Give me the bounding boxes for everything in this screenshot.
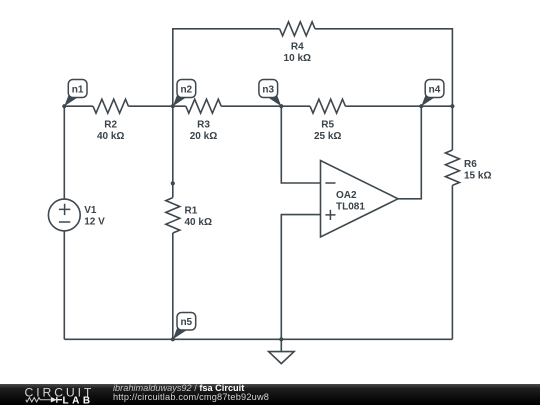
resistor R6 — [445, 150, 459, 185]
op-amp OA2 — [321, 161, 399, 238]
svg-text:15 kΩ: 15 kΩ — [464, 171, 491, 182]
footer text — [113, 384, 244, 394]
svg-text:n1: n1 — [72, 84, 84, 95]
resistor R2 — [93, 99, 128, 113]
voltage source V1 — [48, 199, 80, 231]
svg-text:12 V: 12 V — [84, 217, 105, 228]
node n3 junction — [279, 104, 283, 108]
svg-text:TL081: TL081 — [336, 201, 365, 212]
R1 top junction — [171, 181, 175, 185]
wire: V1 down to bottom rail — [63, 231, 65, 339]
wire: n1 down to V1 — [63, 106, 65, 199]
node n2 junction — [171, 104, 175, 108]
resistor R4 — [280, 22, 315, 36]
svg-text:20 kΩ: 20 kΩ — [190, 131, 217, 142]
svg-text:OA2: OA2 — [336, 190, 357, 201]
node n1 junction — [62, 104, 66, 108]
wire: n2 down to R1 — [172, 106, 174, 197]
ground — [280, 339, 282, 351]
svg-text:40 kΩ: 40 kΩ — [185, 217, 212, 228]
wire: top loop right side — [315, 29, 452, 106]
node n3 flag — [268, 93, 281, 107]
svg-text:V1: V1 — [84, 205, 97, 216]
svg-text:R1: R1 — [185, 205, 198, 216]
node n4 flag — [421, 93, 434, 107]
node n5 flag — [173, 326, 186, 340]
wire: R6 down to bottom rail — [451, 185, 453, 339]
node n2 flag — [173, 93, 186, 107]
wire: R3 to R5 through n3 — [221, 105, 310, 107]
svg-text:R4: R4 — [291, 41, 304, 52]
svg-text:n4: n4 — [429, 84, 441, 95]
wire: bottom rail — [64, 338, 452, 340]
footer bar — [0, 384, 540, 405]
CircuitLab logo — [25, 386, 100, 405]
resistor R3 — [186, 99, 221, 113]
wire: main row n1 to R2 — [64, 105, 93, 107]
svg-text:40 kΩ: 40 kΩ — [97, 131, 124, 142]
svg-text:n3: n3 — [262, 84, 274, 95]
right rail junction — [450, 104, 454, 108]
svg-text:10 kΩ: 10 kΩ — [284, 53, 311, 64]
svg-text:n5: n5 — [180, 317, 192, 328]
svg-text:R3: R3 — [197, 120, 210, 131]
svg-text:25 kΩ: 25 kΩ — [314, 131, 341, 142]
ground junction — [279, 337, 283, 341]
wire: op-amp output up to n4 — [398, 106, 421, 199]
svg-text:R2: R2 — [104, 120, 117, 131]
svg-text:LAB: LAB — [63, 395, 94, 405]
wire: n3 down and to op-amp minus input — [281, 106, 320, 183]
node n4 junction — [419, 104, 423, 108]
svg-text:n2: n2 — [180, 84, 192, 95]
resistor R5 — [310, 99, 345, 113]
node label flags — [64, 80, 444, 340]
wire: op-amp plus input to ground rail — [281, 215, 320, 340]
wire: R2 to R3 — [128, 105, 185, 107]
resistor R1 — [166, 198, 180, 233]
wire: R1 down to n5 — [172, 233, 174, 339]
node n1 flag — [64, 93, 77, 107]
wire: R5 to right rail — [345, 105, 452, 107]
wire: right rail to R6 — [451, 106, 453, 150]
wire: top feedback loop with R4 — [173, 29, 280, 106]
svg-text:R6: R6 — [464, 159, 477, 170]
node n5 junction — [171, 337, 175, 341]
svg-text:R5: R5 — [321, 120, 334, 131]
